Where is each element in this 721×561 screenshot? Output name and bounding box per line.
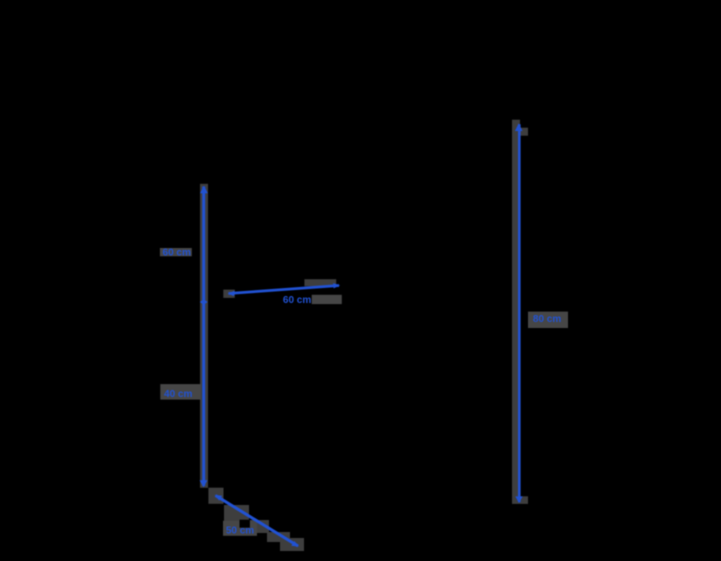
label box 80 cm (right) <box>528 312 568 328</box>
label box 60 cm (left upper) <box>160 248 192 256</box>
label box 40 cm (left lower) <box>160 384 201 400</box>
halo stair blocks along diagonal dimension D5 <box>208 488 223 504</box>
dimension line D3 horizontal 60 cm shaft <box>229 286 340 294</box>
svg-text:50 cm: 50 cm <box>226 526 254 537</box>
arrowhead D5 lower-right <box>291 541 299 547</box>
svg-text:40 cm: 40 cm <box>164 389 192 400</box>
arrowhead D4 bottom (down) <box>515 496 522 503</box>
dimension D1/D2 halo band (left vertical) <box>200 184 208 488</box>
dimension D4 halo band (right vertical) <box>512 120 520 504</box>
arrowhead D5 upper-left <box>215 495 223 501</box>
arrowhead D1 top (up) <box>200 186 208 194</box>
arrowhead D4 top (up) <box>515 123 523 131</box>
svg-text:60 cm: 60 cm <box>283 295 311 306</box>
arrowhead D3 left <box>228 291 235 296</box>
arrowhead D3 right <box>333 283 340 288</box>
arrowhead D2 bottom (down) <box>200 480 208 487</box>
dimension line D1 vertical 60 cm shaft <box>202 187 205 303</box>
halo chunks along horizontal dimension D3 <box>223 290 235 298</box>
black notch in diagonal label halo <box>240 520 250 528</box>
label box 50 cm (diagonal) <box>223 521 257 536</box>
dimension line D2 vertical 40 cm shaft <box>202 302 205 486</box>
arrowhead junction diamond at segment boundary <box>200 299 208 304</box>
dimension line D5 diagonal 50 cm shaft <box>216 496 299 547</box>
svg-text:80 cm: 80 cm <box>533 314 561 325</box>
svg-text:60 cm: 60 cm <box>163 248 191 259</box>
dimension line D4 vertical 80 cm shaft <box>518 124 521 502</box>
